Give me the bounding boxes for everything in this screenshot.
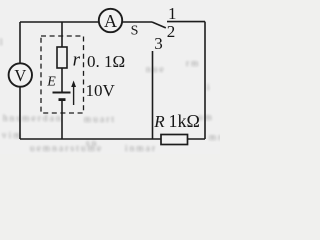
internal resistance r (rectangle) — [57, 47, 67, 68]
switch S blade — [152, 22, 166, 28]
wire: ammeter to switch pivot — [122, 21, 152, 23]
svg-text:n u e: n u e — [146, 64, 164, 74]
svg-text:r m: r m — [186, 58, 198, 68]
dashed battery box — [41, 36, 84, 113]
wire: bottom — [20, 138, 205, 140]
battery E: short plate — [59, 98, 66, 101]
wire: top, left corner to ammeter — [20, 21, 99, 23]
emf direction arrow — [71, 81, 76, 106]
svg-text:2: 2 — [167, 22, 176, 41]
svg-text:h n s m e r d a n: h n s m e r d a n — [3, 113, 61, 123]
svg-text:v i m: v i m — [2, 130, 21, 140]
svg-text:0. 1Ω: 0. 1Ω — [87, 52, 125, 71]
svg-text:i n m a r: i n m a r — [125, 143, 155, 153]
svg-text:A: A — [104, 11, 117, 31]
svg-text:m r: m r — [209, 132, 220, 142]
ammeter A — [99, 9, 122, 32]
wire: right side down — [204, 22, 206, 139]
svg-text:r: r — [73, 50, 81, 71]
resistor R (rectangle on bottom wire) — [161, 135, 188, 145]
wire: switch contact 3 branch down to bottom — [152, 51, 154, 139]
svg-text:R: R — [153, 112, 165, 131]
wire: battery to bottom wire — [61, 100, 63, 139]
ghost print-through text (decorative, faint) — [0, 37, 221, 153]
svg-text:1: 1 — [168, 4, 177, 23]
voltmeter V — [9, 63, 32, 86]
wire: left side — [19, 22, 21, 139]
svg-text:1kΩ: 1kΩ — [169, 111, 200, 131]
svg-text:10V: 10V — [86, 81, 116, 100]
svg-text:E: E — [46, 75, 56, 90]
wire: between r and battery — [61, 68, 63, 92]
wire: battery branch from top wire — [61, 22, 63, 47]
wire: switch contact 1/2 to top-right corner — [167, 21, 205, 23]
svg-text:3: 3 — [154, 34, 163, 53]
battery E: long plate — [53, 92, 71, 94]
svg-text:V: V — [14, 66, 26, 85]
svg-text:S: S — [131, 23, 139, 38]
svg-text:m u a r t: m u a r t — [84, 114, 114, 124]
